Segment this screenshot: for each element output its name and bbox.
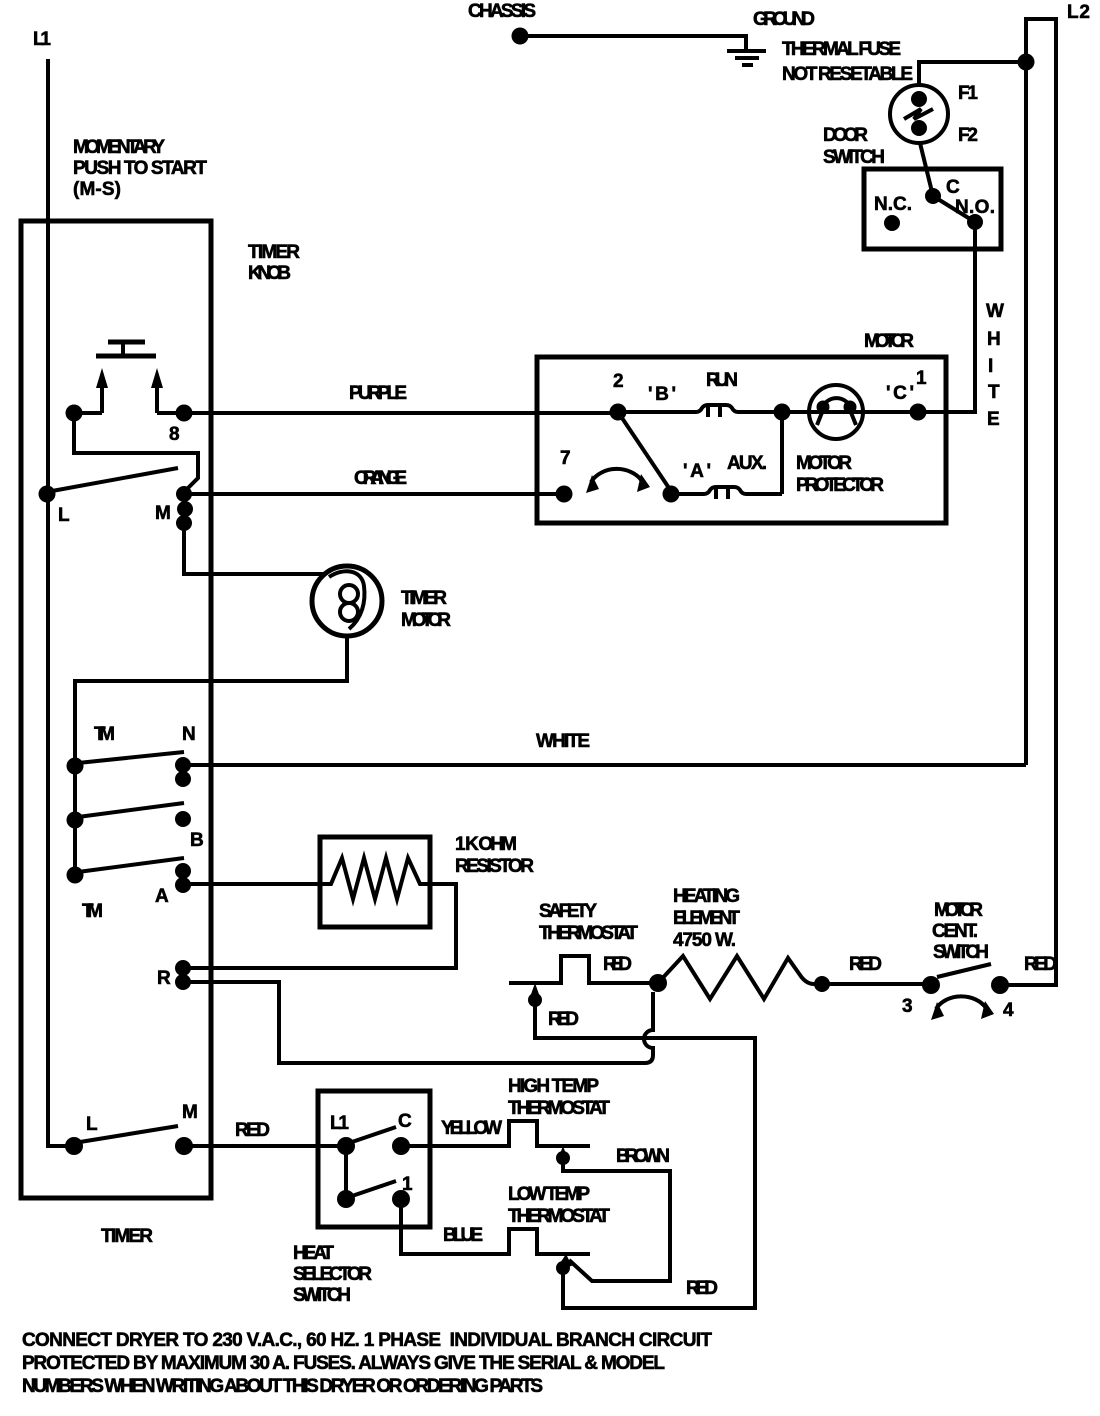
- svg-text:7: 7: [560, 448, 571, 469]
- svg-text:THERMOSTAT: THERMOSTAT: [508, 1206, 610, 1227]
- svg-text:L: L: [58, 505, 70, 526]
- svg-text:RUN: RUN: [706, 370, 738, 391]
- svg-text:TM: TM: [82, 901, 103, 922]
- svg-text:1: 1: [916, 368, 927, 389]
- svg-text:M: M: [155, 503, 171, 524]
- svg-text:'C': 'C': [886, 383, 914, 404]
- svg-text:YELLOW: YELLOW: [441, 1118, 502, 1139]
- svg-text:KNOB: KNOB: [248, 263, 291, 284]
- svg-text:CHASSIS: CHASSIS: [468, 1, 536, 22]
- svg-text:THERMOSTAT: THERMOSTAT: [539, 923, 638, 944]
- svg-text:RED: RED: [603, 954, 632, 975]
- svg-text:BLUE: BLUE: [443, 1225, 483, 1246]
- svg-text:C: C: [398, 1111, 412, 1132]
- svg-text:SELECTOR: SELECTOR: [293, 1264, 372, 1285]
- svg-text:TIMER: TIMER: [101, 1226, 153, 1247]
- svg-text:TIMER: TIMER: [248, 242, 300, 263]
- svg-text:PROTECTED BY MAXIMUM 30 A. FUS: PROTECTED BY MAXIMUM 30 A. FUSES. ALWAYS…: [22, 1353, 665, 1374]
- svg-text:L1: L1: [330, 1113, 349, 1134]
- svg-text:T: T: [988, 382, 1000, 403]
- svg-text:CONNECT DRYER TO 230 V.A.C., 6: CONNECT DRYER TO 230 V.A.C., 60 HZ. 1 PH…: [22, 1330, 712, 1351]
- svg-text:N.O.: N.O.: [955, 197, 995, 218]
- svg-text:NOT RESETABLE: NOT RESETABLE: [782, 64, 913, 85]
- svg-text:RED: RED: [235, 1120, 270, 1141]
- svg-text:H: H: [987, 329, 1001, 350]
- svg-text:TM: TM: [94, 724, 115, 745]
- svg-text:DOOR: DOOR: [823, 125, 868, 146]
- svg-text:4: 4: [1003, 1000, 1014, 1021]
- svg-text:HEAT: HEAT: [293, 1243, 334, 1264]
- svg-text:N: N: [182, 724, 196, 745]
- svg-text:A: A: [155, 886, 169, 907]
- svg-text:SWITCH: SWITCH: [933, 942, 989, 963]
- svg-text:PROTECTOR: PROTECTOR: [796, 475, 884, 496]
- svg-text:N.C.: N.C.: [874, 194, 912, 215]
- svg-text:SWITCH: SWITCH: [293, 1285, 351, 1306]
- svg-text:PURPLE: PURPLE: [349, 383, 407, 404]
- svg-text:L2: L2: [1067, 2, 1090, 23]
- svg-text:1: 1: [402, 1174, 413, 1195]
- svg-text:'B': 'B': [648, 384, 676, 405]
- svg-text:RESISTOR: RESISTOR: [455, 856, 534, 877]
- svg-text:THERMAL FUSE: THERMAL FUSE: [782, 39, 901, 60]
- svg-text:MOMENTARY: MOMENTARY: [73, 137, 165, 158]
- svg-text:E: E: [987, 409, 1000, 430]
- svg-text:C: C: [946, 177, 960, 198]
- svg-text:HEATING: HEATING: [673, 886, 740, 907]
- svg-text:PUSH TO START: PUSH TO START: [73, 158, 207, 179]
- svg-text:CENT.: CENT.: [932, 921, 978, 942]
- svg-text:1 K OHM: 1 K OHM: [455, 834, 517, 855]
- svg-text:M: M: [182, 1102, 198, 1123]
- svg-text:3: 3: [902, 996, 913, 1017]
- svg-text:ELEMENT: ELEMENT: [673, 908, 740, 929]
- svg-text:MOTOR: MOTOR: [864, 331, 914, 352]
- svg-text:GROUND: GROUND: [753, 9, 815, 30]
- svg-text:SAFETY: SAFETY: [539, 901, 597, 922]
- svg-text:L1: L1: [33, 29, 51, 50]
- svg-text:RED: RED: [548, 1009, 579, 1030]
- svg-text:4750 W.: 4750 W.: [673, 930, 736, 951]
- svg-text:AUX.: AUX.: [727, 453, 767, 474]
- svg-text:L: L: [86, 1114, 98, 1135]
- svg-text:R: R: [157, 968, 171, 989]
- svg-text:ORANGE: ORANGE: [354, 468, 407, 489]
- svg-text:'A': 'A': [683, 461, 711, 482]
- svg-text:MOTOR: MOTOR: [401, 610, 451, 631]
- svg-text:(M-S): (M-S): [73, 179, 121, 200]
- svg-text:8: 8: [169, 424, 180, 445]
- svg-text:B: B: [190, 830, 204, 851]
- svg-text:RED: RED: [849, 954, 882, 975]
- svg-text:THERMOSTAT: THERMOSTAT: [508, 1098, 610, 1119]
- svg-text:MOTOR: MOTOR: [796, 453, 852, 474]
- svg-text:HIGH TEMP: HIGH TEMP: [508, 1076, 599, 1097]
- svg-text:RED: RED: [686, 1278, 718, 1299]
- svg-text:WHITE: WHITE: [536, 731, 590, 752]
- svg-text:RED: RED: [1024, 954, 1057, 975]
- svg-text:MOTOR: MOTOR: [934, 900, 983, 921]
- svg-text:W: W: [986, 301, 1004, 322]
- svg-text:NUMBERS WHEN WRITING ABOUT THI: NUMBERS WHEN WRITING ABOUT THIS DRYER OR…: [22, 1376, 543, 1397]
- svg-text:SWITCH: SWITCH: [823, 147, 885, 168]
- svg-text:2: 2: [613, 371, 624, 392]
- svg-text:LOW TEMP: LOW TEMP: [508, 1184, 590, 1205]
- svg-text:I: I: [988, 356, 993, 377]
- svg-text:BROWN: BROWN: [616, 1146, 670, 1167]
- svg-text:TIMER: TIMER: [401, 588, 447, 609]
- svg-text:F1: F1: [958, 83, 978, 104]
- svg-text:F2: F2: [958, 125, 978, 146]
